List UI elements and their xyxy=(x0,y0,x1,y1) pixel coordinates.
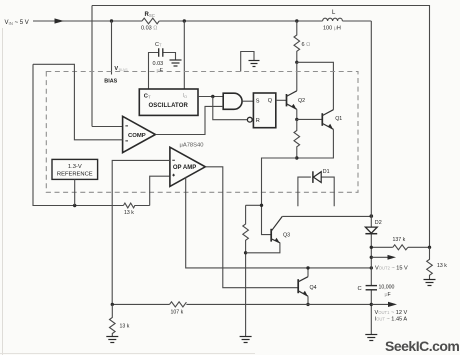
wire top feedback frame xyxy=(92,6,430,248)
svg-text:CT: CT xyxy=(155,42,162,48)
SR latch box xyxy=(253,93,275,128)
svg-text:Q2: Q2 xyxy=(298,98,305,104)
svg-text:13 k: 13 k xyxy=(120,324,130,330)
diode D1 symbol xyxy=(313,171,321,183)
capacitor CT xyxy=(159,48,163,56)
arrow 15V xyxy=(371,256,389,258)
svg-text:COMP: COMP xyxy=(128,133,146,139)
node junction rail/137k xyxy=(370,246,373,249)
resistor Q3 base xyxy=(243,205,249,253)
svg-text:107 k: 107 k xyxy=(171,310,184,316)
oscillator box U1 xyxy=(139,89,198,115)
wire opamp tap to rail line xyxy=(186,177,372,268)
resistor 137k xyxy=(393,245,408,250)
wire CT capacitor branch xyxy=(149,53,176,90)
node junction 15V tap xyxy=(370,256,373,259)
comparator COMP xyxy=(123,116,156,152)
wire Q4 emitter xyxy=(307,296,309,304)
svg-text:13 k: 13 k xyxy=(124,210,134,216)
wire ref box bottom xyxy=(74,180,76,206)
svg-text:Q4: Q4 xyxy=(310,285,317,291)
reference box xyxy=(52,159,98,179)
wire oscillator output xyxy=(198,96,223,98)
node junction rail/Q3c xyxy=(370,214,374,218)
svg-text:μF: μF xyxy=(385,292,391,298)
wire Vin to oscillator pin xyxy=(183,21,185,89)
svg-text:137 k: 137 k xyxy=(393,237,406,243)
inductor L xyxy=(323,18,343,21)
resistor 13k bottom-left xyxy=(110,304,116,336)
transistor Q2 xyxy=(287,91,297,110)
svg-text:0.03: 0.03 xyxy=(153,61,164,67)
inverter bubble R input xyxy=(247,117,252,122)
svg-text:VIN ~ 5 V: VIN ~ 5 V xyxy=(5,20,29,26)
svg-text:SeekIC.com: SeekIC.com xyxy=(385,338,459,354)
resistor 6 ohm xyxy=(294,21,300,62)
wire Q3 collector xyxy=(282,215,371,217)
node junction Vin/6ohm xyxy=(295,19,298,22)
svg-text:S: S xyxy=(256,98,260,104)
diode D2 xyxy=(365,227,377,234)
wire to R input xyxy=(213,97,248,120)
wire Q to Q2 base xyxy=(276,99,287,101)
svg-text:BIAS: BIAS xyxy=(104,79,117,85)
ground output rail xyxy=(365,335,377,341)
wire bias stub xyxy=(111,21,113,75)
svg-text:REFERENCE: REFERENCE xyxy=(57,171,93,177)
wire opamp minus input from divider xyxy=(112,160,170,304)
resistor Q2 emitter xyxy=(294,119,300,158)
wire Q3 base net xyxy=(246,205,272,234)
node junction 12V tap xyxy=(370,303,373,306)
wire opamp output xyxy=(205,167,298,288)
wire Q1 emitter xyxy=(297,129,334,158)
wire ref net upper xyxy=(33,64,123,140)
node junction Q2e xyxy=(295,118,298,121)
ground near CT xyxy=(170,60,182,66)
wire feedback to comp xyxy=(92,6,123,127)
wire 137k branch xyxy=(371,246,429,248)
node junction Vin/osc xyxy=(183,19,186,22)
transistor Q4 xyxy=(298,277,308,297)
node junction divider left xyxy=(111,303,114,306)
dashed IC boundary xyxy=(46,72,358,193)
wire Q3 base resistor to ground xyxy=(245,253,247,337)
wire Q3 emitter link xyxy=(246,243,280,253)
svg-text:C: C xyxy=(358,286,362,292)
resistor 13k right xyxy=(427,247,433,279)
node junction Q3 base net xyxy=(260,204,263,207)
svg-text:IO: IO xyxy=(183,93,188,99)
resistor 13k mid xyxy=(123,203,149,208)
ground bottom-left xyxy=(106,337,118,343)
ground divider right xyxy=(424,280,436,286)
node junction Q4e xyxy=(306,303,309,306)
wire AND output xyxy=(242,100,253,102)
wire Q4 collector xyxy=(307,268,309,277)
wire to opamp plus xyxy=(150,176,170,205)
svg-text:Q1: Q1 xyxy=(335,116,342,122)
node junction emitter resistor bottom xyxy=(295,156,298,159)
wire ref net left vertical xyxy=(33,64,123,205)
svg-text:6 Ω: 6 Ω xyxy=(302,42,311,48)
wire to Q1 collector xyxy=(297,62,334,109)
svg-text:CT: CT xyxy=(144,94,151,100)
svg-text:10,000: 10,000 xyxy=(379,285,395,291)
wire Q2 collector xyxy=(296,62,298,91)
node junction Q4c xyxy=(306,266,309,269)
resistor RSC xyxy=(142,18,159,24)
node junction osc/latch-R xyxy=(211,95,214,98)
wire Q2e to Q1 base xyxy=(297,118,323,120)
wire output rail xyxy=(370,21,372,335)
svg-text:100 μH: 100 μH xyxy=(323,26,341,32)
node junction Q3 emitter xyxy=(244,251,247,254)
svg-text:Q: Q xyxy=(268,98,273,104)
svg-text:R: R xyxy=(256,118,260,124)
ground bracket xyxy=(249,61,260,67)
svg-text:1.3-V: 1.3-V xyxy=(68,164,82,170)
opamp input marks xyxy=(172,160,175,176)
svg-text:13 k: 13 k xyxy=(437,263,447,269)
wire Vin rail xyxy=(33,20,371,22)
wire Q2 emitter down xyxy=(296,109,298,119)
comp input marks xyxy=(125,126,128,141)
wire ground bracket on dashed box xyxy=(241,52,254,72)
wire node to Q3 branch xyxy=(262,158,297,205)
wire comp output xyxy=(155,106,223,134)
arrowhead Vin xyxy=(55,18,65,23)
svg-text:0.03 Ω: 0.03 Ω xyxy=(141,26,157,32)
svg-text:RSC: RSC xyxy=(145,12,156,18)
capacitor C output xyxy=(366,286,377,290)
arrow 12V xyxy=(371,303,389,305)
wire divider 107k line xyxy=(112,303,371,305)
node junction ref box xyxy=(73,204,76,207)
svg-text:OSCILLATOR: OSCILLATOR xyxy=(148,103,188,109)
node junction Vin/bias xyxy=(110,19,113,22)
svg-text:D2: D2 xyxy=(375,220,382,226)
resistor 107k xyxy=(170,302,187,307)
svg-text:D1: D1 xyxy=(323,169,330,175)
node junction 6ohm/Q1 collector xyxy=(295,61,298,64)
svg-text:Q3: Q3 xyxy=(283,233,290,239)
ground Q3 net xyxy=(240,337,252,343)
node junction rail 267.9 xyxy=(370,266,373,269)
diode D1 loop xyxy=(298,177,334,206)
opamp U2 xyxy=(170,147,205,186)
svg-text:μA78S40: μA78S40 xyxy=(180,143,204,149)
node junction 137k/13k xyxy=(428,246,431,249)
svg-text:OP AMP: OP AMP xyxy=(173,165,196,171)
AND gate xyxy=(223,93,242,109)
transistor Q3 xyxy=(271,216,282,242)
transistor Q1 xyxy=(322,110,333,130)
